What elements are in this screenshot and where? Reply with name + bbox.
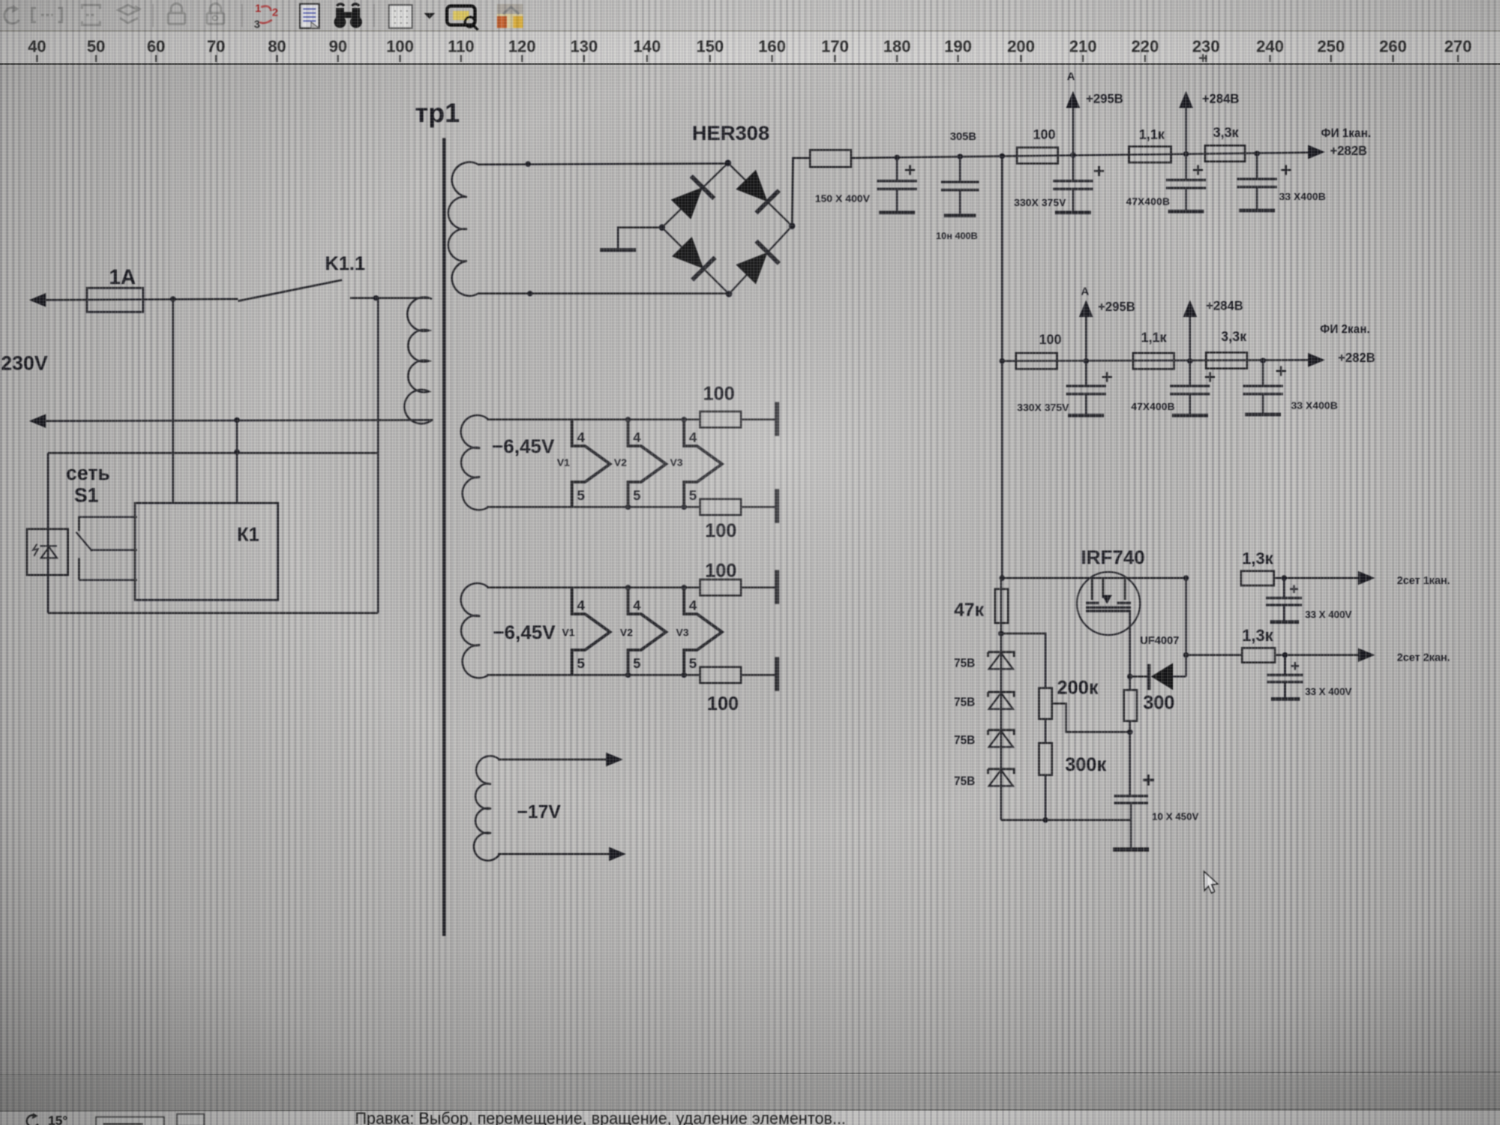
arrow output ФИ 1кан: [1308, 145, 1325, 159]
capacitor C2 10n 400V: [957, 154, 963, 160]
toolbar icon: mirror vertical (disabled): [82, 5, 100, 25]
wire relay loop bottom: [48, 612, 378, 614]
status color box: [177, 1114, 204, 1125]
relay K1: [135, 503, 278, 600]
wire heater2 bottom: [487, 674, 700, 676]
mouse cursor: [1204, 872, 1218, 894]
capacitor C6 330uF 375V: [1085, 361, 1087, 415]
node output ch2: [1260, 358, 1266, 364]
wire flyback to drain rail: [1185, 578, 1187, 677]
wire bias top with arrow: [498, 759, 608, 761]
primary winding: [404, 297, 432, 424]
toolbar icon: list/document: [300, 4, 319, 28]
diode D1 top-left: [669, 176, 714, 221]
capacitor C4 47uF 400V: [1185, 154, 1187, 211]
capacitor 10uF 450V: [1129, 732, 1131, 795]
HV secondary winding: [448, 162, 479, 296]
wire relay coil lead 2: [236, 420, 238, 503]
wire mains line N with left arrow: [29, 414, 46, 428]
wire 300к to bottom rail: [1045, 775, 1047, 820]
status area divider: [0, 1072, 1500, 1075]
node +284B ch2: [1187, 358, 1193, 364]
wire relay loop left: [47, 453, 49, 613]
resistor 300к: [1039, 743, 1052, 775]
diode D4 bottom-right: [734, 241, 779, 286]
wire bias bottom with arrow: [498, 853, 611, 855]
capacitor C7 47uF 400V: [1189, 361, 1191, 415]
capacitor C3 330uF 375V: [1072, 155, 1074, 212]
wire wiper tap: [1052, 704, 1130, 733]
wire B+ rail ch1: [851, 153, 1311, 159]
toolbar icon: unlock gear (disabled): [207, 4, 224, 25]
diode D3 bottom-left: [670, 235, 715, 280]
capacitor C1 150uF 400V: [894, 155, 900, 161]
tube V1 heater a: [572, 420, 610, 508]
zener VD3 75В: [988, 730, 1014, 735]
switch S1 lamp box: [27, 529, 68, 575]
wire divider bottom rail: [1001, 819, 1131, 821]
tube V3 heater a: [684, 420, 722, 508]
wire relay loop top: [48, 452, 378, 454]
capacitor C8 33uF 400V: [1262, 361, 1264, 415]
terminal bar heater1 bottom: [775, 489, 779, 523]
wire output 2сет 2кан: [1186, 654, 1242, 656]
wire gate node to divider: [1001, 634, 1046, 689]
transformer T1 core: [442, 138, 445, 936]
node +284B ch1: [1183, 151, 1189, 157]
node B+ to MOSFET section: [999, 575, 1005, 581]
status rotate icon: [27, 1115, 38, 1125]
node A ch2 +295B: [1083, 358, 1089, 364]
ground bar: [1113, 847, 1149, 851]
toolbar separator: [373, 4, 375, 27]
wire heater1 bottom: [487, 506, 700, 508]
potentiometer 200к: [1039, 688, 1052, 719]
toolbar icon: grid toggle: [389, 5, 412, 28]
status bar: [0, 1075, 1500, 1111]
toolbar icon: renumber 1-2-3: [254, 3, 278, 31]
switch contact K1.1: [238, 280, 342, 301]
capacitor 33uF 400V out1: [1283, 578, 1285, 621]
node junction after switch: [373, 295, 379, 301]
ruler numbers and ticks: [28, 38, 1472, 62]
resistor 1,3к ch2 out: [1242, 648, 1275, 663]
diode D2 top-right: [734, 168, 779, 213]
toolbar icon: mirror horizontal (disabled): [32, 8, 62, 22]
node output ch1: [1254, 151, 1260, 157]
wire between divider resistors: [1045, 719, 1047, 743]
toolbar icon: zoom window: [447, 6, 478, 30]
toolbar icon: rotate page (disabled): [118, 5, 140, 23]
fuse 1A: [87, 288, 143, 312]
zener VD1 75В: [988, 652, 1014, 657]
resistor 47к: [1000, 578, 1002, 633]
wire right side of relay loop: [377, 298, 379, 613]
node junction on L wire: [170, 296, 176, 302]
node junction on loop top: [234, 449, 240, 455]
wire to terminal: [741, 419, 775, 421]
tube V2 heater b: [628, 588, 666, 676]
resistor 1,1к ch1: [1129, 147, 1171, 163]
resistor 100 heater2 top: [700, 580, 741, 596]
toolbar icon: binoculars: [334, 4, 362, 28]
resistor 100 heater2 bottom: [700, 667, 741, 683]
capacitor 33uF 400V out2: [1284, 655, 1286, 698]
filament winding 1: [461, 415, 489, 510]
wire HV bottom to bridge: [478, 293, 729, 295]
terminal bar heater1 top: [775, 402, 779, 436]
toolbar separator: [241, 4, 243, 27]
application toolbar background: [0, 0, 1500, 31]
filament winding 2: [461, 583, 489, 678]
resistor 3,3к ch2: [1206, 353, 1247, 369]
wire bridge DC+ riser: [792, 158, 810, 226]
status input field: [96, 1117, 164, 1125]
wire HV top to bridge: [478, 164, 728, 165]
toolbar icon: photo/lamp colored: [497, 4, 523, 28]
zener VD2 75В: [988, 692, 1014, 697]
wire heater1 top: [487, 419, 700, 421]
ground: [618, 228, 662, 249]
arrow output ФИ 2кан: [1308, 353, 1325, 367]
toolbar icon: lock (disabled): [168, 4, 185, 25]
resistor 1,3к ch1 out: [1241, 571, 1274, 586]
node junction on N wire: [234, 417, 240, 423]
tube V3 heater b: [684, 588, 722, 676]
toolbar icon: rotate (disabled): [4, 5, 19, 24]
wire heater2 top: [487, 587, 700, 589]
bias winding -17V: [474, 756, 500, 861]
resistor 300 source: [1124, 690, 1137, 721]
resistor 100 heater1 bottom: [700, 499, 741, 515]
resistor 100 heater1 top: [700, 412, 741, 428]
resistor 100 ch1: [1017, 148, 1058, 164]
wire mains line L with left arrow: [29, 293, 46, 307]
toolbar icon: dropdown arrow: [424, 13, 435, 19]
resistor 3,3к ch1: [1205, 146, 1245, 162]
switch S1 contacts: [76, 517, 137, 580]
node gate divider: [998, 631, 1004, 637]
tube V1 heater b: [572, 588, 610, 676]
wire source lead: [1129, 611, 1131, 690]
ruler strip: [0, 32, 1500, 64]
wire HV bus vertical: [1001, 156, 1003, 578]
resistor series B+: [810, 150, 851, 167]
zener chain lead: [1000, 634, 1002, 821]
terminal bar heater2 top: [775, 570, 779, 604]
wire relay coil lead 1: [172, 299, 174, 503]
capacitor C5 33uF 400V: [1256, 154, 1258, 211]
tube V2 heater a: [628, 420, 666, 508]
resistor 100 ch2: [1016, 353, 1057, 369]
resistor 1,1к ch2: [1133, 353, 1174, 369]
wire switch to primary: [350, 297, 430, 299]
wire B+ rail ch2 feed: [999, 358, 1005, 364]
node B+ bus tap: [999, 153, 1005, 159]
toolbar separator: [152, 4, 154, 27]
wire drain rail: [1002, 577, 1186, 579]
terminal bar heater2 bottom: [775, 657, 779, 691]
node A ch1 +295B: [1070, 152, 1076, 158]
wire output 2сет 1кан: [1274, 577, 1360, 579]
zener VD4 75В: [988, 769, 1014, 774]
